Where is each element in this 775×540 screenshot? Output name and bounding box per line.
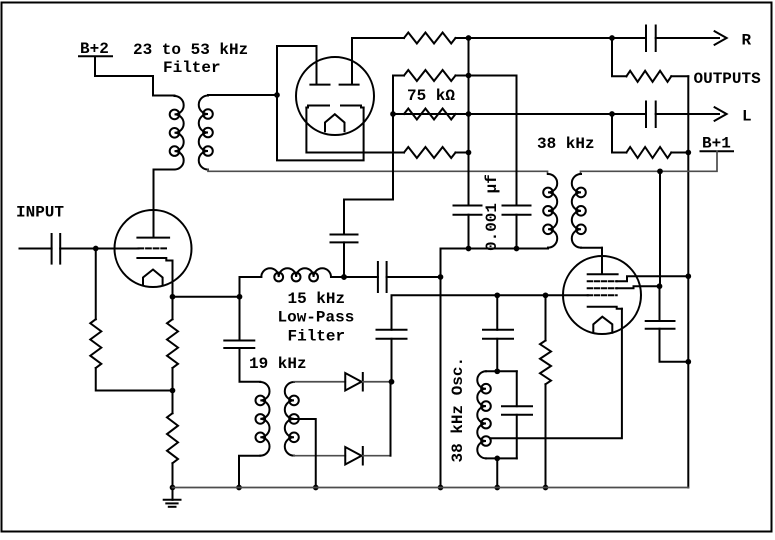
node A junction: [274, 92, 280, 98]
node R line junction: [609, 35, 615, 41]
node ground rail left junction: [170, 485, 176, 491]
resistor R2: [404, 70, 455, 81]
node B+1 rail junction: [657, 168, 663, 174]
wire caps elbow down to ground: [440, 249, 442, 488]
node R6 right junction: [685, 150, 691, 156]
svg-text:L: L: [742, 108, 752, 126]
capacitor C4 0.001uf: [503, 205, 531, 207]
node grid line junction 1: [494, 292, 500, 298]
transformer T1 primary winding: [170, 96, 184, 170]
wire T2 secondary bottom to V3 plate: [581, 248, 602, 273]
resistor R3 75k: [404, 109, 455, 120]
node R3 left junction: [390, 111, 396, 117]
tube V2 right plate: [340, 84, 359, 86]
wire D1 to sum node: [363, 381, 392, 383]
svg-text:OUTPUTS: OUTPUTS: [694, 70, 762, 88]
wire matrix column upper: [468, 38, 470, 206]
node R10 ground junction: [543, 485, 549, 491]
resistor R9 lower: [172, 391, 174, 414]
wire R7 bottom elbow: [96, 368, 173, 391]
wire filter input riser: [240, 277, 262, 297]
node C12 bus junction: [685, 359, 691, 365]
wire V1 cathode to filter: [173, 296, 240, 298]
resistor R4: [404, 147, 455, 158]
wire V1 cathode lead: [172, 261, 174, 297]
tube V2 heater: [325, 114, 345, 131]
svg-text:0.001 µf: 0.001 µf: [483, 174, 501, 251]
resistor R5 deemphasis R: [612, 38, 626, 76]
wire R2/R3 left leg to C5: [344, 114, 393, 200]
capacitor C7 L coupling: [645, 102, 647, 128]
wire matrix column 2 upper: [516, 76, 518, 206]
resistor R6 deemphasis L: [612, 114, 626, 153]
wire C5 top lead: [343, 200, 345, 235]
node L line junction: [609, 111, 615, 117]
wire C9 to V3 grid line: [392, 295, 588, 330]
capacitor C10 osc grid: [483, 329, 513, 331]
wire V2 right plate to R1: [352, 38, 404, 83]
ground symbol: [172, 488, 174, 500]
svg-text:38 kHz: 38 kHz: [537, 135, 595, 153]
node tap ground junction: [313, 485, 319, 491]
node suppressor bus junction: [685, 273, 691, 279]
svg-text:75 kΩ: 75 kΩ: [407, 87, 455, 105]
wire tank top: [486, 370, 517, 372]
arrow R output: [715, 31, 727, 45]
wire input cap to grid: [60, 248, 138, 250]
wire V2 left cathode to R4: [306, 108, 404, 153]
node tank ground junction: [494, 485, 500, 491]
wire T3 center tap to ground: [294, 419, 316, 488]
tube V3 envelope: [563, 256, 641, 334]
node B junction: [341, 274, 347, 280]
wire V3 screen lead: [617, 286, 660, 288]
svg-text:Filter: Filter: [288, 328, 346, 346]
transformer T1 secondary winding: [199, 96, 213, 170]
ground rail: [173, 487, 689, 489]
wire tank cap column: [516, 371, 518, 406]
node R2 junction: [466, 73, 472, 79]
wire V3 suppressor to bus: [617, 276, 689, 281]
node cathode chain junction: [170, 388, 176, 394]
node R1 output junction: [466, 35, 472, 41]
wire C12 bottom to bus: [660, 329, 689, 362]
wire tank bottom: [486, 457, 517, 459]
capacitor C2 series: [377, 262, 379, 292]
tube V2 left plate: [310, 84, 329, 86]
transformer T2 secondary winding: [572, 174, 586, 248]
transformer T2 primary winding: [543, 174, 557, 248]
resistor R7 grid leak: [95, 249, 97, 320]
wire C12 top: [659, 286, 661, 321]
wire T3 primary bottom to ground: [239, 456, 260, 488]
wire T2 primary bottom to caps: [441, 247, 549, 250]
capacitor C11 tank: [502, 405, 532, 407]
transformer T3 secondary winding: [285, 382, 299, 456]
node C4 bottom junction: [514, 246, 520, 252]
wire C10 top: [496, 295, 498, 330]
wire T1 secondary bottom to T2 primary top (long run): [208, 170, 548, 175]
tube V3 plate: [588, 273, 618, 275]
capacitor C1 input: [51, 234, 53, 264]
svg-text:B+1: B+1: [702, 135, 731, 153]
wire tank bottom to ground: [496, 458, 498, 487]
svg-text:INPUT: INPUT: [16, 204, 64, 222]
wire R-output line: [469, 37, 613, 39]
arrow L output: [715, 107, 727, 121]
wire R2 left elbow: [393, 76, 404, 115]
wire filter junction down to C8: [239, 297, 241, 341]
wire screen dropper column: [659, 171, 661, 286]
tube V1 plate: [137, 237, 169, 239]
wire sum node to C9: [391, 339, 393, 382]
capacitor C3 0.001uf: [454, 205, 482, 207]
capacitor C12 screen bypass: [646, 320, 675, 322]
node elbow junction: [438, 274, 444, 280]
diode D2: [345, 447, 361, 465]
node T3 ground junction: [236, 485, 242, 491]
node screen junction: [657, 283, 663, 289]
wire C10 bottom: [496, 339, 498, 372]
svg-text:R: R: [742, 32, 752, 50]
wire R arrow shaft: [656, 37, 719, 39]
tube V3 cathode: [588, 307, 622, 309]
wire T3 secondary bottom to D2: [294, 455, 345, 457]
node V1 grid junction: [93, 246, 99, 252]
wire C3 bottom: [468, 215, 470, 249]
resistor R10 osc grid leak: [545, 295, 547, 340]
inductor L2 oscillator coil: [477, 371, 491, 458]
diode D1: [345, 373, 361, 391]
tube V1 cathode: [137, 258, 172, 261]
wire node B to C2: [344, 276, 378, 278]
tube V1 envelope: [115, 210, 192, 287]
node tank top junction: [494, 368, 500, 374]
resistor R1: [404, 33, 455, 44]
tube V1 grid: [139, 247, 168, 249]
inductor L1 15kHz: [261, 268, 331, 281]
svg-text:38 kHz Osc.: 38 kHz Osc.: [449, 357, 467, 463]
transformer T3 primary winding: [255, 382, 269, 456]
node grid line junction 2: [543, 292, 549, 298]
wire V2 left plate loop from node A: [277, 46, 317, 95]
wire C4 bottom: [516, 215, 518, 249]
capacitor C5: [331, 234, 358, 236]
node filter input junction: [237, 294, 243, 300]
node R4 junction: [466, 150, 472, 156]
wire T1 secondary top to node A: [208, 94, 277, 96]
wire C5 bottom lead: [343, 242, 345, 277]
capacitor C8 19k: [224, 340, 254, 342]
capacitor C6 R coupling: [645, 26, 647, 52]
wire input lead: [20, 248, 52, 250]
resistor R8 cathode: [172, 297, 174, 320]
tube V2 right cathode: [341, 106, 364, 108]
node C3 bottom junction: [466, 246, 472, 252]
node elbow ground junction: [438, 485, 444, 491]
tube V3 grids: [588, 280, 617, 282]
tube V2 envelope: [296, 57, 374, 135]
svg-text:19 kHz: 19 kHz: [249, 355, 307, 373]
wire T3 secondary top to D1: [294, 381, 345, 383]
wire C2 to elbow node: [387, 276, 441, 278]
wire L1 to node B: [331, 276, 344, 278]
tube V1 heater: [143, 270, 163, 286]
node V1 cathode junction: [170, 294, 176, 300]
wire L2 tap to V3 cathode: [490, 309, 622, 439]
wire right-side bus: [687, 76, 689, 487]
tube V3 heater: [593, 317, 612, 333]
wire B+2 to T1 primary top: [95, 57, 175, 95]
wire D2 to sum node: [363, 455, 391, 457]
wire C8 to T3 primary top: [240, 348, 261, 382]
wire T1 primary bottom to V1 plate: [154, 170, 175, 237]
node tank bottom junction: [494, 456, 500, 462]
capacitor C9 doubler: [377, 329, 407, 331]
svg-text:Filter: Filter: [163, 59, 221, 77]
wire V3 plate stem: [601, 248, 603, 273]
wire V2 right cathode to node A column: [277, 95, 364, 160]
node C5 bottom junction: [341, 274, 347, 280]
tube V2 left cathode: [306, 106, 329, 108]
svg-text:15 kHz: 15 kHz: [288, 290, 346, 308]
svg-text:Low-Pass: Low-Pass: [278, 309, 355, 327]
node R3 right junction: [466, 111, 472, 117]
wire B+1 drop: [581, 151, 718, 174]
svg-text:23 to 53 kHz: 23 to 53 kHz: [133, 41, 248, 59]
wire L-output line: [393, 113, 646, 115]
node diode sum junction: [389, 379, 395, 385]
